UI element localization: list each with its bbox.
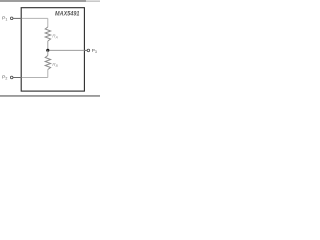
svg-text:MAX5491: MAX5491 (55, 11, 80, 17)
svg-text:P2: P2 (2, 75, 7, 81)
IC box MAX5491 outline (21, 8, 84, 91)
svg-text:P1: P1 (2, 16, 7, 22)
wire RB lead down (47, 70, 49, 78)
wire P2 horizontal inside box (22, 77, 48, 79)
resistor RB zigzag (45, 56, 50, 70)
wire junction to RB (47, 50, 49, 55)
junction node dot (46, 49, 49, 52)
terminal P3 (87, 49, 90, 52)
resistor RA zigzag (45, 27, 50, 41)
wire P1 stub outside box (13, 17, 21, 19)
wire P1 horizontal inside box (22, 17, 48, 19)
terminal P1 (10, 17, 13, 20)
wire junction to P3 inside box (49, 49, 84, 51)
wire P3 stub outside box (84, 49, 87, 51)
bottom page rule (0, 95, 100, 97)
top page rule (0, 0, 100, 2)
svg-text:RA: RA (52, 34, 58, 40)
wire P1 vertical down to RA (47, 18, 49, 27)
wire P2 stub outside box (13, 77, 21, 79)
svg-text:RB: RB (52, 62, 58, 68)
svg-text:P3: P3 (92, 48, 97, 54)
terminal P2 (10, 76, 13, 79)
wire RA lead down to junction (47, 41, 49, 50)
